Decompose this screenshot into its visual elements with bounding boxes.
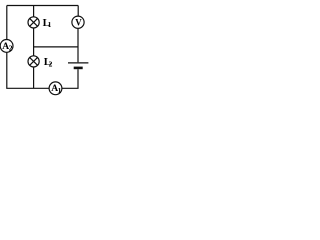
wire top-right corner down to voltmeter [77, 6, 79, 17]
lamp L1 [28, 17, 39, 28]
wire L1 to node N2 [33, 28, 35, 56]
ammeter A2 [0, 40, 13, 53]
svg-text:V: V [75, 17, 82, 27]
wire bottom [7, 52, 49, 88]
svg-text:1: 1 [48, 20, 52, 29]
wire top [7, 5, 78, 7]
battery positive plate [68, 62, 88, 64]
wire left up [6, 6, 8, 40]
svg-text:1: 1 [58, 86, 62, 95]
wire L2 to bottom [33, 67, 35, 88]
wire middle N2 to right branch [34, 46, 78, 48]
wire voltmeter to battery [77, 28, 79, 62]
svg-text:2: 2 [9, 43, 13, 52]
voltmeter V [72, 16, 84, 28]
lamp L2 [28, 56, 39, 67]
svg-text:2: 2 [49, 59, 53, 68]
wire stub to lamp L1 [33, 6, 35, 17]
ammeter A1 [49, 82, 62, 95]
battery negative plate [74, 67, 83, 70]
wire battery to bottom-right corner [62, 69, 78, 88]
